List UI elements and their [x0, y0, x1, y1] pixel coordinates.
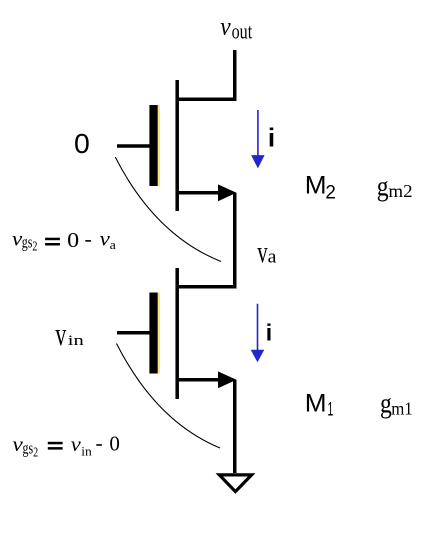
svg-text:0: 0 — [74, 128, 90, 159]
transistor M1 — [117, 268, 236, 399]
label v_a — [257, 234, 276, 269]
equation vgs2 = vin - 0 — [13, 432, 120, 460]
svg-text:v: v — [257, 234, 268, 269]
node v_a wire (M2 source to M1 drain) — [176, 193, 235, 287]
svg-text:i: i — [266, 320, 272, 346]
label gm2 — [377, 171, 413, 203]
svg-text:v: v — [71, 432, 81, 456]
svg-text:gs: gs — [23, 439, 34, 458]
svg-text:2: 2 — [325, 183, 336, 204]
source arrow M2 — [218, 184, 236, 201]
svg-text:a: a — [110, 237, 116, 252]
transistor M2 — [117, 80, 236, 211]
svg-text:gs: gs — [22, 233, 33, 252]
svg-text:out: out — [232, 19, 253, 44]
svg-text:i: i — [268, 122, 275, 152]
svg-text:m2: m2 — [388, 181, 412, 201]
source lead M2 — [176, 191, 231, 195]
svg-text:M: M — [305, 172, 327, 200]
gate bar yellow stripe M1 — [158, 293, 160, 374]
current arrow i (top) — [251, 110, 265, 168]
channel M2 — [175, 80, 179, 211]
svg-text:g: g — [380, 388, 392, 420]
svg-text:g: g — [377, 171, 389, 203]
svg-text:v: v — [100, 227, 111, 251]
ground — [219, 475, 251, 492]
gate bar yellow stripe M2 — [158, 105, 160, 186]
label M1 — [305, 390, 334, 421]
svg-text:0: 0 — [67, 228, 79, 252]
label gm1 — [380, 388, 413, 420]
wire v_out to M2 drain — [176, 50, 235, 99]
svg-text:1: 1 — [328, 399, 334, 420]
current arrow i (bottom) — [251, 304, 265, 363]
svg-text:2: 2 — [32, 239, 37, 254]
vgs2 arc (top) — [115, 157, 221, 261]
gate lead M2 — [117, 144, 150, 148]
gate lead M1 — [117, 331, 150, 335]
source lead M1 — [176, 378, 231, 382]
equation vgs2 = 0 - va — [12, 227, 116, 254]
gate label v_in (M1) — [55, 317, 84, 353]
source arrow M1 — [218, 371, 236, 388]
node v_out label — [220, 14, 252, 44]
svg-text:v: v — [55, 317, 66, 353]
svg-text:a: a — [268, 247, 277, 267]
wire M1 source to ground — [233, 380, 237, 473]
channel M1 — [175, 268, 179, 399]
svg-text:in: in — [68, 333, 85, 349]
svg-text:v: v — [220, 14, 231, 41]
svg-text:in: in — [81, 443, 92, 458]
label M2 — [305, 172, 336, 204]
svg-text:m1: m1 — [391, 398, 413, 418]
gate bar M1 — [149, 293, 157, 374]
svg-text:2: 2 — [33, 444, 38, 459]
svg-text:0: 0 — [109, 432, 120, 456]
gate bar M2 — [149, 105, 157, 186]
vgs1 arc (bottom) — [117, 344, 221, 449]
svg-text:M: M — [305, 390, 327, 418]
